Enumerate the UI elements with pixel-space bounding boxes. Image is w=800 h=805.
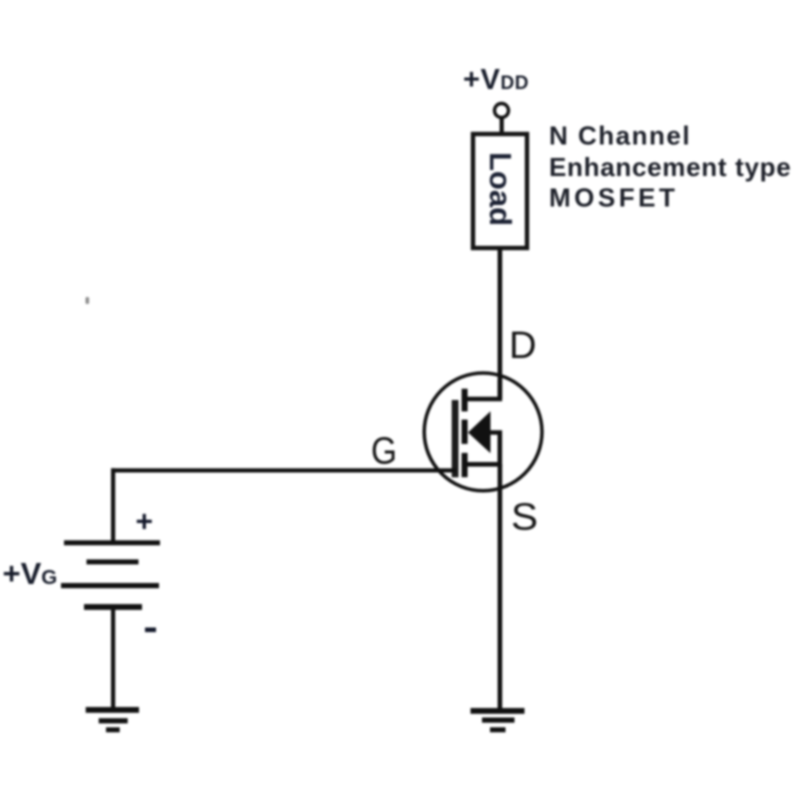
Q1 body arrow (468, 411, 491, 453)
ground left bar 3 (106, 727, 120, 732)
wire from VDD terminal to load (500, 118, 504, 134)
ground left bar 1 (86, 707, 139, 713)
battery plate long top (64, 540, 160, 545)
stray mark (86, 297, 90, 304)
Q1 drain internal connection (465, 380, 500, 399)
battery plate short upper (87, 559, 139, 564)
svg-text:Enhancement type: Enhancement type (549, 152, 791, 182)
battery plate long lower (61, 583, 159, 588)
ground right bar 2 (482, 718, 515, 723)
wire from load to drain (498, 248, 503, 399)
transistor Q1 body circle (424, 373, 542, 491)
resistor Load box (473, 134, 527, 248)
wire battery positive lead (111, 468, 115, 541)
terminal circle for VDD (495, 104, 509, 118)
Q1 channel segment top (462, 389, 468, 412)
Q1 channel segment middle (462, 420, 468, 444)
svg-text:N Channel: N Channel (549, 121, 691, 151)
svg-text:+: + (136, 506, 154, 539)
wire source to ground (498, 464, 503, 709)
wire battery negative lead (111, 609, 115, 709)
battery negative sign (145, 628, 156, 633)
svg-text:Load: Load (483, 152, 518, 226)
battery plate short bottom (84, 604, 142, 610)
svg-text:S: S (511, 497, 538, 539)
svg-text:G: G (371, 431, 397, 473)
ground right bar 1 (471, 708, 525, 714)
ground left bar 2 (99, 718, 128, 723)
Q1 gate electrode bar (452, 400, 459, 477)
Q1 body-to-source connection (465, 433, 500, 465)
ground right bar 3 (490, 727, 506, 732)
svg-text:D: D (509, 325, 537, 367)
Q1 channel segment bottom (462, 453, 468, 477)
svg-text:MOSFET: MOSFET (549, 182, 678, 212)
wire gate horizontal (111, 468, 456, 472)
